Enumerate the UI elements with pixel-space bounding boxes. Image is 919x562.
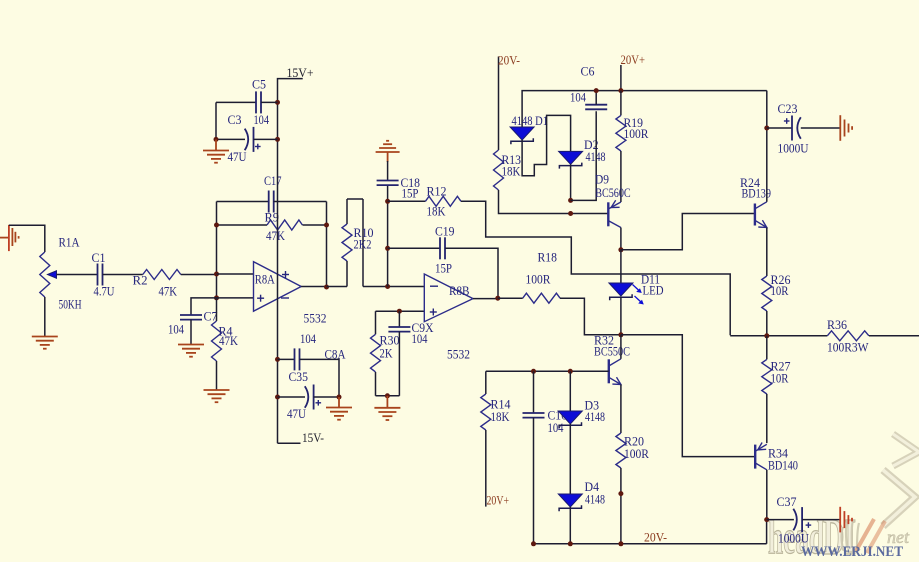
capacitor C6 (585, 104, 607, 106)
wire D2 node to C6 bottom (571, 111, 597, 200)
svg-text:5532: 5532 (447, 348, 470, 362)
diode D2 (559, 151, 583, 164)
capacitor C18 (377, 180, 399, 182)
svg-text:18K: 18K (427, 205, 446, 219)
junction C6 / rail (594, 88, 599, 93)
svg-text:100R3W: 100R3W (827, 340, 869, 354)
wire C3 lead right (254, 138, 278, 140)
power port 20V+ top (620, 65, 622, 91)
junction D2 node / base line (568, 211, 573, 216)
junction feedback-left / R9 (214, 223, 219, 228)
wire R10 right branch (362, 199, 364, 287)
wire rail to R19 (620, 91, 622, 116)
svg-text:10R: 10R (771, 284, 790, 298)
junction feedback-right / R9 (324, 223, 329, 228)
junction R2 / inverting input (214, 272, 219, 277)
junction R30 ground node (385, 393, 390, 398)
svg-text:20V+: 20V+ (487, 492, 510, 507)
wire output node rail (730, 335, 827, 337)
wire node to C7 (191, 298, 217, 315)
wire C19 lead left (388, 247, 440, 249)
junction rail C16 (531, 541, 536, 546)
capacitor C8A electrolytic (313, 385, 315, 410)
wire R30 loop bottom (376, 395, 400, 397)
svg-text:D9: D9 (595, 173, 609, 187)
op-amp R8A triangle (254, 262, 302, 312)
svg-text:C3: C3 (228, 113, 242, 127)
capacitor C16 (523, 412, 545, 414)
wire R19 to D9 emitter (620, 151, 622, 202)
wire ground stem to C18 (387, 152, 389, 162)
svg-text:C19: C19 (435, 225, 455, 239)
R1A wiper arrow (48, 271, 57, 278)
svg-text:BC550C: BC550C (594, 344, 630, 358)
resistor R26 (762, 276, 772, 311)
resistor R13 (494, 150, 504, 190)
wire feedback loop left vertical (216, 202, 218, 298)
resistor R12 (425, 196, 461, 206)
diode D3 (558, 411, 582, 424)
wire R9 line left (217, 224, 268, 226)
wire C5 lead left (216, 101, 256, 103)
junction C5 right (275, 100, 280, 105)
transistor R32 emitter (NPN arrow out) (609, 377, 621, 384)
svg-text:BC560C: BC560C (595, 186, 631, 200)
svg-text:47K: 47K (219, 334, 238, 348)
svg-text:104: 104 (412, 332, 429, 346)
wire C8A lead right (314, 396, 339, 398)
op-amp R8A plus power marker (282, 274, 289, 276)
wire R27 to R34 emitter (766, 394, 768, 443)
wire C1 to R2 (103, 274, 143, 276)
resistor R36 (827, 331, 869, 341)
plus marker C3 (255, 146, 261, 148)
svg-text:4148: 4148 (585, 410, 605, 424)
transistor D9 base bar (607, 202, 609, 226)
wire R14 to 20V+ port (485, 430, 487, 507)
transistor R34 collector (755, 463, 767, 470)
svg-text:47U: 47U (228, 150, 247, 164)
wire C9X bottom lead (398, 332, 400, 396)
svg-text:20V-: 20V- (644, 530, 667, 545)
junction C35 left (275, 357, 280, 362)
svg-text:15P: 15P (402, 187, 419, 201)
svg-text:C5: C5 (252, 78, 266, 92)
wire D9 node to LED (620, 250, 622, 283)
svg-text:C17: C17 (264, 174, 282, 188)
junction C3 left (214, 137, 219, 142)
resistor R20 (616, 433, 626, 468)
bottom 20V- rail (534, 543, 767, 545)
resistor R4 (212, 321, 222, 361)
svg-text:20V-: 20V- (498, 53, 520, 68)
wire feedback right vertical (326, 202, 328, 288)
svg-text:10R: 10R (771, 371, 790, 385)
wire R26 bottom (766, 311, 768, 336)
capacitor C23 electrolytic (791, 116, 793, 141)
wire R18 lead left (498, 297, 523, 299)
transistor D9 emitter (PNP arrow to base) (608, 202, 621, 209)
junction C8A left (275, 395, 280, 400)
wire R34 collector down (766, 470, 768, 520)
svg-text:C23: C23 (778, 102, 798, 116)
wire C3 lead left (216, 138, 245, 140)
wire R18 to LED bottom node (560, 298, 620, 335)
junction C23 (764, 126, 769, 131)
wire LED node right and down to R34 base (621, 335, 755, 457)
wire 20V+ rail top (522, 91, 767, 127)
wire C9X top lead (398, 311, 400, 327)
watermark hand glyph (842, 520, 861, 552)
ground right of C37 (839, 507, 841, 533)
svg-text:LED: LED (643, 284, 664, 298)
wire D2 cathode down (570, 164, 572, 200)
power port 20V- top (498, 57, 500, 151)
transistor R32 collector (609, 359, 621, 366)
resistor R2 (143, 270, 181, 280)
junction C9X top (397, 309, 402, 314)
resistor R30 loop left branch (375, 311, 377, 334)
wire C37 to ground (802, 519, 840, 521)
wire output to R10 left (327, 286, 348, 288)
resistor R18 (523, 293, 560, 303)
wire pot bottom (44, 297, 46, 336)
ground under C8A (338, 397, 340, 408)
potentiometer R1A (40, 252, 50, 297)
wire R32 emitter to R20 (620, 385, 622, 434)
svg-text:15V+: 15V+ (287, 65, 314, 80)
op-amp R8B triangle (424, 274, 473, 322)
resistor R10 hairpin left branch (346, 199, 348, 224)
svg-text:R18: R18 (538, 251, 558, 265)
wire node to R4 (216, 298, 218, 321)
wire R8A output lead (301, 286, 326, 288)
resistor R14 (481, 394, 491, 430)
wire R24 emitter down to R26 (766, 228, 768, 277)
transistor R34 base bar (754, 445, 756, 469)
svg-text:4148 D1: 4148 D1 (512, 114, 549, 128)
junction LED bottom (618, 332, 623, 337)
svg-text:2K2: 2K2 (354, 237, 372, 251)
wire D3 top lead (569, 371, 571, 411)
svg-text:100R: 100R (526, 272, 552, 286)
junction C8A right (337, 395, 342, 400)
svg-text:4.7U: 4.7U (94, 284, 115, 298)
junction R8A output (324, 285, 329, 290)
wire R10 to minus input line (363, 286, 424, 288)
wire vertical ladder C18-C19-output (387, 186, 389, 287)
capacitor C37 electrolytic (801, 507, 803, 532)
wire R2 to inverting node (181, 274, 217, 276)
svg-text:R12: R12 (427, 185, 447, 199)
transistor R32 base bar (608, 359, 610, 383)
wire C8A lead left (278, 396, 306, 398)
ground under R1A (32, 336, 58, 338)
power port 15V- (278, 442, 301, 444)
svg-text:47U: 47U (287, 407, 306, 421)
svg-text:R8A: R8A (255, 272, 275, 286)
capacitor C35 (294, 348, 296, 370)
wire R13 to base line (499, 190, 609, 214)
wire D1 cathode staircase to D2 (522, 115, 571, 175)
wire C35 lead right + loop (300, 359, 340, 397)
svg-text:R2: R2 (133, 274, 148, 288)
op-amp U8A input leads (217, 273, 254, 275)
wire input to pot top (9, 225, 45, 252)
op-amp R8A plus input marker (257, 297, 264, 299)
wire C16 top lead (533, 371, 535, 413)
svg-text:47K: 47K (266, 229, 285, 243)
transistor D9 collector (608, 221, 621, 228)
wire D4 to rail (569, 507, 571, 544)
wire C17 loop top right (274, 201, 327, 203)
ground under C3 (215, 139, 217, 150)
wire R8B output lead (473, 298, 498, 300)
resistor R27 (766, 336, 768, 360)
wire R10 top connector (347, 198, 363, 200)
wire R32 base line (486, 370, 609, 372)
plus marker C8A (316, 402, 322, 404)
svg-text:1000U: 1000U (778, 141, 809, 155)
junction R8B output (495, 296, 500, 301)
capacitor C17 (268, 191, 270, 213)
ground under R30 (386, 396, 388, 408)
svg-text:100R: 100R (624, 127, 650, 141)
capacitor C5 (255, 91, 257, 113)
wire 15V+ vertical rail through R8A (277, 102, 279, 443)
wire rail up to C37 node (766, 520, 768, 544)
wire C16 bottom lead (533, 418, 535, 544)
svg-text:100R: 100R (624, 447, 650, 461)
wire R20 down to rail (620, 468, 622, 544)
junction rail D4 (568, 541, 573, 546)
svg-text:104: 104 (300, 332, 317, 346)
op-amp R8B plus marker (430, 311, 437, 313)
LED arrows (633, 285, 640, 292)
junction C16 top (531, 369, 536, 374)
svg-text:20V+: 20V+ (621, 52, 646, 67)
op-amp R8B minus marker (430, 285, 438, 287)
resistor R9 (267, 220, 302, 230)
wire C23 lead (767, 127, 792, 129)
capacitor C19 (439, 237, 441, 259)
svg-text:5532: 5532 (304, 311, 327, 325)
input jack ground symbol (0, 237, 9, 239)
wire R12 to bias feedback path (461, 201, 730, 335)
wire C5 loop left vertical (215, 102, 217, 139)
svg-text:R8B: R8B (449, 284, 470, 298)
svg-text:WWW.ERJI.NET: WWW.ERJI.NET (801, 544, 903, 560)
wire plus input line (376, 310, 425, 312)
diode D11 LED (609, 283, 633, 296)
capacitor C3 electrolytic (253, 127, 255, 152)
svg-text:C1: C1 (92, 251, 106, 265)
junction C18 / R12 (385, 199, 390, 204)
svg-text:104: 104 (570, 91, 587, 105)
wire D3 to D4 (569, 424, 571, 494)
watermark chevrons (893, 434, 919, 466)
wire C6 top lead (595, 91, 597, 105)
wire R9 line right (303, 224, 327, 226)
transistor R24 collector (755, 202, 767, 209)
svg-text:C35: C35 (289, 370, 309, 384)
svg-text:104: 104 (548, 421, 565, 435)
junction C19 line (385, 246, 390, 251)
wire C23 to ground (801, 127, 841, 129)
svg-text:BD140: BD140 (768, 458, 798, 472)
svg-text:104: 104 (254, 113, 270, 127)
wire C37 lead (767, 519, 794, 521)
junction output line / C-ladder (385, 284, 390, 289)
junction C3 right (275, 137, 280, 142)
ground under R4 (204, 389, 230, 391)
wire D9 collector down (620, 228, 622, 250)
wire R4 to ground (216, 361, 218, 390)
transistor R24 emitter (NPN arrow out) (755, 220, 767, 227)
capacitor C1 (97, 264, 99, 286)
svg-text:C6: C6 (581, 65, 595, 79)
svg-text:104: 104 (168, 323, 185, 337)
ground above C18 (376, 151, 400, 153)
wire to R14 (485, 371, 487, 394)
junction D2 cathode node (568, 198, 573, 203)
svg-text:15V-: 15V- (302, 430, 324, 445)
wire C7 to ground (190, 320, 192, 345)
diode D1 (510, 127, 534, 140)
svg-text:18K: 18K (491, 410, 510, 424)
junction rail R20 (618, 541, 623, 546)
wire C17 loop top left (217, 201, 270, 203)
wire LED to R32 collector node (620, 297, 622, 335)
wire C19 to R8B output (445, 248, 498, 297)
svg-text:18K: 18K (502, 165, 521, 179)
wire D9 collector to R24 base staircase (621, 214, 755, 250)
junction D9 collector node (618, 247, 623, 252)
svg-text:4148: 4148 (585, 493, 605, 507)
resistor R19 (616, 115, 626, 151)
wire R12 lead left (388, 200, 426, 202)
svg-text:2K: 2K (380, 346, 393, 360)
junction bottom input node (214, 295, 219, 300)
capacitor C9X (388, 326, 410, 328)
wire R36 to edge (869, 335, 919, 337)
junction D3 top (568, 369, 573, 374)
ground under C7 (178, 344, 204, 346)
svg-text:C37: C37 (777, 495, 797, 509)
svg-text:50KH: 50KH (59, 298, 82, 312)
transistor R24 base bar (754, 204, 756, 226)
svg-text:15P: 15P (435, 262, 452, 276)
plus marker C23 (784, 120, 790, 122)
svg-text:R1A: R1A (59, 236, 80, 250)
ground right of C23 (839, 115, 841, 141)
diode D4 (558, 494, 582, 507)
junction output node (764, 333, 769, 338)
wire C5 lead right (261, 101, 278, 103)
wire R24 collector to rail (766, 91, 768, 202)
junction C37 (764, 517, 769, 522)
capacitor C7 (180, 314, 202, 316)
svg-text:47K: 47K (159, 284, 178, 298)
power port 15V+ (278, 79, 303, 103)
transistor R34 emitter (PNP arrow to base) (755, 444, 767, 451)
plus marker C37 (806, 524, 812, 526)
svg-text:R36: R36 (827, 318, 847, 332)
junction 20V+ / rail (618, 88, 623, 93)
op-amp R8A minus power marker (281, 297, 289, 299)
svg-text:C8A: C8A (325, 348, 346, 362)
wire C35 lead left (278, 358, 295, 360)
junction on R20 line (618, 491, 623, 496)
